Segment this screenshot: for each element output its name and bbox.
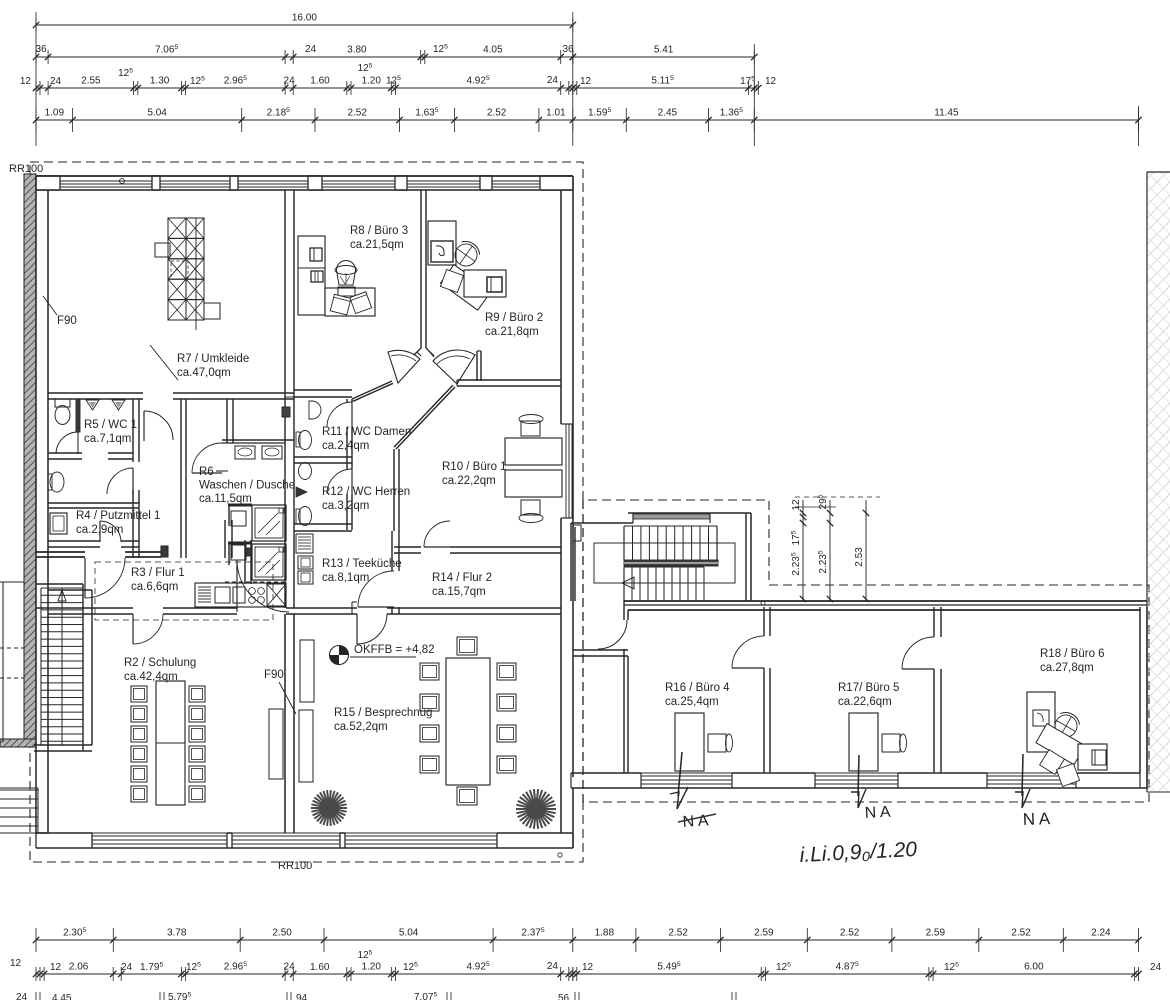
svg-text:1.30: 1.30 (150, 76, 170, 87)
svg-text:36: 36 (35, 44, 47, 55)
right wall small panel (573, 525, 581, 541)
svg-text:2.06: 2.06 (69, 962, 89, 973)
svg-text:1.09: 1.09 (45, 108, 65, 119)
desk group R18 (1027, 692, 1107, 787)
svg-text:3.80: 3.80 (347, 45, 367, 56)
R5 bottom wall (48, 453, 133, 459)
NA arrow R18 (1015, 754, 1030, 808)
kitchen dashed top edge (225, 581, 286, 583)
desk R17 (849, 713, 907, 771)
svg-text:12: 12 (791, 499, 802, 511)
label R17 (838, 682, 899, 708)
lockers R7 (155, 218, 220, 330)
svg-text:94: 94 (296, 993, 308, 1000)
label F90 near R15 (264, 669, 296, 714)
stairwell enclosure left building (34, 584, 92, 751)
svg-text:ca.21,8qm: ca.21,8qm (485, 326, 539, 338)
svg-text:5.41: 5.41 (654, 45, 674, 56)
svg-text:RR100: RR100 (278, 860, 312, 872)
stair handrail boundary (594, 543, 735, 583)
dimension extension verticals bottom (31, 925, 33, 1000)
door R10 (424, 521, 450, 547)
leader R7 (150, 345, 178, 380)
R4 top wall (48, 503, 139, 508)
svg-text:R4 / Putzmittel 1: R4 / Putzmittel 1 (76, 510, 160, 522)
svg-text:2.24: 2.24 (1091, 928, 1111, 939)
svg-text:ca.52,2qm: ca.52,2qm (334, 721, 388, 733)
lobby bottom wall (573, 650, 628, 656)
R10 diagonal wall (394, 385, 455, 449)
left neighbour lower edge lines (0, 582, 24, 742)
svg-text:2.55: 2.55 (81, 76, 101, 87)
corridor wall x181 (181, 399, 186, 558)
label R13 (322, 558, 402, 584)
door sanitary lobby entry (144, 411, 173, 441)
svg-text:ca.15,7qm: ca.15,7qm (432, 586, 486, 598)
svg-text:ca.8,1qm: ca.8,1qm (322, 572, 369, 584)
conference table R15 (420, 637, 516, 805)
svg-text:6.00: 6.00 (1024, 962, 1044, 973)
svg-text:1.20: 1.20 (361, 962, 381, 973)
label R3 (131, 567, 185, 593)
svg-text:4.05: 4.05 (483, 45, 503, 56)
desk group R9 (428, 221, 506, 310)
R10 left wall (394, 449, 399, 531)
desk group R8 (298, 236, 375, 316)
svg-text:12: 12 (50, 962, 62, 973)
svg-text:F90: F90 (57, 315, 77, 327)
tables and chairs R10 (505, 415, 562, 523)
svg-text:12: 12 (765, 76, 777, 87)
svg-text:56: 56 (558, 993, 570, 1000)
dim bottom row3 fragments (16, 992, 736, 1000)
door R15 (357, 614, 387, 644)
svg-text:F90: F90 (264, 669, 284, 681)
dim bottom row1 (33, 927, 1142, 952)
svg-text:2.53: 2.53 (854, 547, 865, 567)
svg-text:2.50: 2.50 (272, 928, 292, 939)
svg-text:ca.25,4qm: ca.25,4qm (665, 696, 719, 708)
R11 fixtures (296, 401, 321, 450)
left exterior wall (36, 176, 48, 833)
svg-text:ca.11,5qm: ca.11,5qm (199, 493, 252, 505)
NA arrow R16 (670, 752, 688, 809)
stair top window band (633, 513, 710, 523)
R4 sink (50, 513, 67, 534)
svg-text:2.52: 2.52 (840, 928, 860, 939)
dim row1 16.00 (33, 13, 576, 33)
svg-text:2.59: 2.59 (754, 928, 774, 939)
stair treads upper flight (624, 526, 717, 560)
wing bottom wall with windows (571, 773, 1147, 788)
wing right wall (1140, 607, 1147, 788)
svg-text:R9 / Büro 2: R9 / Büro 2 (485, 312, 543, 324)
svg-text:3.78: 3.78 (167, 928, 187, 939)
svg-text:24: 24 (284, 76, 296, 87)
svg-text:R3 / Flur 1: R3 / Flur 1 (131, 567, 185, 579)
svg-text:RR100: RR100 (9, 163, 43, 175)
partition wall R2|R15 (285, 614, 294, 833)
svg-text:24: 24 (16, 992, 28, 1000)
svg-text:24: 24 (50, 76, 62, 87)
R6 top wall (222, 440, 294, 443)
svg-text:1.88: 1.88 (595, 928, 615, 939)
svg-text:R6: R6 (199, 466, 214, 478)
hall top wall y608 (right section over R15) (294, 602, 561, 614)
svg-text:2.45: 2.45 (658, 108, 678, 119)
plant R15 right (516, 789, 556, 829)
dim row3 left (20, 63, 576, 96)
svg-text:12: 12 (10, 958, 22, 969)
svg-text:1.20: 1.20 (361, 76, 381, 87)
label R15 (334, 707, 432, 733)
svg-text:Waschen / Dusche: Waschen / Dusche (199, 480, 295, 492)
dim row2 left (33, 44, 576, 65)
dim row2 right 5.41 (570, 45, 758, 65)
svg-text:R8 / Büro 3: R8 / Büro 3 (350, 225, 408, 237)
door R18 entry (902, 637, 934, 669)
svg-text:ca.2,9qm: ca.2,9qm (76, 524, 123, 536)
svg-text:36: 36 (562, 44, 574, 55)
svg-text:N A: N A (1022, 809, 1051, 829)
vestibule door fan B (433, 350, 475, 384)
R3 right wall x245 (245, 540, 251, 584)
door to R6 (192, 443, 222, 473)
svg-text:5.04: 5.04 (399, 928, 419, 939)
left neighbour hatched wall (0, 174, 36, 747)
R4 bottom wall (48, 541, 139, 547)
dashed boundary segment x583 mid (582, 500, 584, 802)
door R12 (327, 469, 352, 494)
sanitary top wall y393 (48, 393, 294, 399)
svg-text:ca.21,5qm: ca.21,5qm (350, 239, 404, 251)
wing left wall (624, 601, 628, 773)
label R7 (177, 353, 249, 379)
svg-text:R11 / WC Damen: R11 / WC Damen (322, 426, 411, 438)
svg-text:R17/ Büro 5: R17/ Büro 5 (838, 682, 899, 694)
svg-text:R10 / Büro 1: R10 / Büro 1 (442, 461, 507, 473)
label R6 (199, 466, 295, 505)
svg-text:R5 / WC 1: R5 / WC 1 (84, 419, 137, 431)
dim bottom row2 left (33, 950, 576, 982)
NA arrow R17 (851, 755, 866, 808)
desk R16 (675, 713, 733, 771)
svg-text:R13 / Teeküche: R13 / Teeküche (322, 558, 402, 570)
door R4 (100, 521, 121, 542)
label R9 (485, 312, 543, 338)
svg-text:R18 / Büro 6: R18 / Büro 6 (1040, 648, 1105, 660)
svg-text:16.00: 16.00 (292, 13, 317, 24)
R6 leader dash (216, 470, 228, 472)
left staircase treads (41, 588, 83, 745)
label R18 (1040, 648, 1105, 674)
svg-text:ca.7,1qm: ca.7,1qm (84, 433, 131, 445)
svg-text:R7 / Umkleide: R7 / Umkleide (177, 353, 249, 365)
svg-text:24: 24 (121, 962, 133, 973)
svg-text:12: 12 (582, 962, 594, 973)
exterior steps bottom left (0, 788, 38, 833)
door lower lobby (107, 468, 133, 494)
chairs and tables R2 (131, 681, 205, 805)
vestibule shallow diagonal wall (352, 381, 393, 401)
sanitary column walls R11 R12 R13 (294, 390, 352, 531)
R12 fixtures (296, 463, 312, 526)
dim bottom row2 right (570, 961, 1162, 981)
right neighbour hatched wall (1147, 172, 1170, 792)
vertical dim chain near stairwell (791, 494, 870, 602)
svg-text:24: 24 (305, 44, 317, 55)
svg-text:12: 12 (20, 76, 32, 87)
top exterior wall with windows (36, 176, 573, 190)
door R13 (358, 571, 394, 607)
OKFFB symbol and label (330, 644, 435, 665)
vestibule door fan A (388, 350, 420, 383)
svg-text:ca.22,2qm: ca.22,2qm (442, 475, 496, 487)
stair enclosure walls (571, 513, 751, 601)
dim row4 (33, 107, 1142, 132)
dashed ceiling opening near stairwell (95, 562, 273, 620)
door R11 (327, 402, 352, 427)
svg-text:24: 24 (284, 962, 296, 973)
svg-text:2.52: 2.52 (668, 928, 688, 939)
svg-text:24: 24 (547, 961, 559, 972)
svg-text:1.60: 1.60 (310, 76, 330, 87)
svg-text:11.45: 11.45 (934, 108, 959, 119)
svg-text:2.52: 2.52 (347, 108, 367, 119)
svg-text:R14 / Flur 2: R14 / Flur 2 (432, 572, 492, 584)
svg-text:N A: N A (864, 804, 891, 822)
RR100 dashed boundary (30, 162, 1149, 862)
R6 left wall x227 (227, 399, 233, 443)
door R5 stall (56, 432, 78, 454)
svg-text:ca.3,2qm: ca.3,2qm (322, 500, 369, 512)
cabinets R15 (269, 640, 314, 782)
door R3 from stair hall (85, 558, 125, 598)
label R11 (322, 426, 411, 452)
R10 bottom wall (394, 547, 561, 553)
plant R15 left (311, 790, 347, 826)
hall top wall y608 (left section over R2) (36, 608, 294, 614)
svg-text:ca.22,6qm: ca.22,6qm (838, 696, 892, 708)
R3 right wall x225 lower (225, 520, 232, 558)
lobby toilet (48, 472, 64, 492)
door R17 entry (732, 636, 764, 668)
stair mid rail dark band (624, 560, 718, 566)
svg-text:1.01: 1.01 (546, 108, 566, 119)
svg-text:ca.47,0qm: ca.47,0qm (177, 367, 231, 379)
wall R16|R17 (764, 607, 770, 773)
door R2 (133, 614, 163, 644)
svg-text:R16 / Büro 4: R16 / Büro 4 (665, 682, 730, 694)
dashed extension lines of vertical chain (795, 496, 880, 498)
label R4 (76, 510, 160, 536)
label R16 (665, 682, 730, 708)
R5 / lobby right wall x133 (133, 399, 139, 558)
R6 fixtures (228, 407, 290, 580)
label R12 (322, 486, 410, 512)
stair direction arrow (622, 577, 634, 589)
svg-text:N A: N A (682, 812, 709, 831)
svg-text:24: 24 (1150, 962, 1162, 973)
svg-text:5.04: 5.04 (147, 108, 167, 119)
door R16 entry (598, 620, 627, 649)
svg-text:ca.6,6qm: ca.6,6qm (131, 581, 178, 593)
label R8 (350, 225, 408, 251)
svg-text:ca.2,4qm: ca.2,4qm (322, 440, 369, 452)
R3 top wall (36, 546, 168, 557)
kitchen counter R3 hall (195, 583, 286, 607)
dimension extension verticals top (35, 12, 37, 146)
dim row3 right (570, 75, 777, 95)
svg-text:24: 24 (547, 75, 559, 86)
NA R16 strike line (678, 814, 716, 822)
stair treads lower flight (624, 567, 704, 601)
wall R8|R9 (413, 190, 434, 357)
label F90 top left (43, 296, 77, 327)
svg-text:2.52: 2.52 (487, 108, 507, 119)
svg-text:1.60: 1.60 (310, 962, 330, 973)
R9|R10 wall (457, 380, 561, 386)
svg-text:12: 12 (580, 76, 592, 87)
spine wall R7|R8 and sanitary column left wall (285, 190, 294, 608)
svg-text:ca.27,8qm: ca.27,8qm (1040, 662, 1094, 674)
svg-text:2.59: 2.59 (926, 928, 946, 939)
svg-text:4.45: 4.45 (52, 993, 72, 1000)
R9 left wall stub (477, 351, 481, 381)
WC R5 fixtures (55, 399, 125, 432)
R13 kitchen (296, 534, 313, 584)
svg-text:R15 / Besprechnug: R15 / Besprechnug (334, 707, 432, 719)
wall R17|R18 (934, 607, 941, 773)
wing top wall (624, 601, 1147, 610)
right exterior wall of main building (561, 176, 573, 848)
label R5 (84, 419, 137, 445)
svg-text:2.52: 2.52 (1011, 928, 1031, 939)
svg-text:R12 / WC Herren: R12 / WC Herren (322, 486, 410, 498)
svg-text:OKFFB = +4,82: OKFFB = +4,82 (354, 644, 435, 656)
label R10 (442, 461, 507, 487)
bottom exterior wall with windows (36, 833, 573, 848)
label R2 (124, 657, 196, 683)
label R14 (432, 572, 492, 598)
small circle marker near stair (761, 601, 765, 605)
svg-text:R2 / Schulung: R2 / Schulung (124, 657, 196, 669)
door kitchen nook (237, 560, 289, 612)
R13 right wall (392, 531, 399, 614)
